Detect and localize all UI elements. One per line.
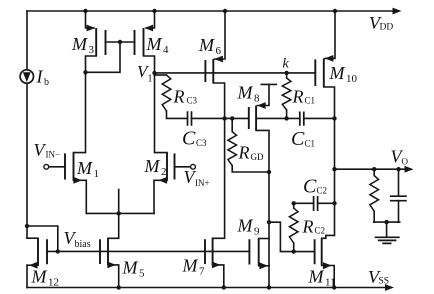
wire M9 drain lead: [259, 238, 269, 240]
svg-text:12: 12: [48, 277, 59, 289]
wire M2 source to tail: [154, 180, 167, 213]
resistor R_C1: [282, 78, 291, 110]
junction dot node V1: [152, 71, 156, 75]
wire RC3 top tap at V1: [155, 74, 167, 76]
wire M3 drain lead down to node A: [86, 56, 97, 72]
junction dot output node: [332, 167, 336, 171]
wire RC2 bottom stub: [293, 243, 295, 252]
svg-text:M: M: [182, 256, 199, 276]
wire M5 source to VSS: [108, 265, 119, 288]
transistor M10 bars: [315, 58, 324, 87]
svg-text:4: 4: [163, 44, 169, 56]
wire RC1 top at node k: [286, 73, 288, 78]
svg-text:O: O: [402, 157, 409, 167]
wire V_IN- terminal to M1 gate: [49, 166, 65, 168]
svg-text:b: b: [44, 77, 49, 88]
wire node V1 to M10 gate (crosses M6, node k): [155, 72, 316, 74]
svg-text:M: M: [144, 156, 161, 176]
wire M1 source to tail: [74, 180, 87, 213]
svg-text:IN+: IN+: [195, 178, 210, 188]
arrow M7 source: [212, 262, 221, 269]
wire RGD top stub: [231, 118, 233, 131]
wire M3 source lead: [86, 11, 95, 28]
svg-text:5: 5: [139, 268, 145, 280]
junction dot Vbias: [56, 249, 60, 253]
junction dot M8 drain: [267, 170, 271, 174]
wire M10 source lead from VDD: [325, 11, 335, 58]
arrow M9 source: [259, 262, 268, 269]
svg-text:C2: C2: [317, 186, 328, 196]
svg-text:C2: C2: [315, 226, 326, 236]
svg-text:C1: C1: [305, 96, 316, 106]
wire M4 source lead: [146, 11, 155, 28]
svg-text:8: 8: [254, 93, 260, 105]
wire M7 source to VSS: [213, 265, 224, 288]
wire M8 source stub with supply bar: [258, 84, 270, 105]
svg-text:3: 3: [89, 44, 95, 56]
wire ground stem: [386, 222, 388, 236]
svg-text:M: M: [146, 34, 163, 54]
wire node A down to M1 drain: [74, 72, 86, 152]
capacitor C_C2 plates: [314, 196, 318, 211]
svg-text:GD: GD: [251, 152, 264, 162]
current source I_b: [20, 70, 33, 83]
wire CC1 right plate to output column: [304, 117, 335, 119]
wire RC3 bottom to CC3: [167, 111, 188, 118]
capacitor C_C3 plates: [188, 111, 192, 126]
arrowhead VDD rail: [393, 8, 402, 15]
wire load bottom bar: [374, 221, 400, 223]
svg-text:IN−: IN−: [46, 150, 61, 160]
transistor M1 bars: [65, 153, 74, 181]
arrow M5 source: [107, 262, 116, 269]
junction dot RC2/CC2 top: [292, 201, 296, 205]
svg-text:1: 1: [94, 168, 100, 180]
capacitor C_C1 plates: [300, 112, 304, 126]
svg-text:k: k: [283, 57, 290, 72]
svg-text:M: M: [31, 267, 48, 287]
ground symbol: [375, 237, 400, 243]
svg-text:C3: C3: [187, 96, 198, 106]
transistor M2 bars: [167, 153, 175, 181]
junction dot second stage node: [222, 116, 226, 120]
transistor M8 bars: [249, 106, 256, 131]
arrow M11 source: [323, 262, 332, 269]
junction dot M3-M4 gate: [118, 40, 122, 44]
transistor M5 bars: [100, 238, 108, 265]
svg-text:C: C: [182, 128, 196, 150]
svg-text:M: M: [237, 216, 254, 236]
transistor M4 bars: [135, 28, 144, 56]
wire M3 diode connection node A to gate wire: [86, 42, 121, 72]
wire RC2 top to CC2 left plate: [294, 203, 314, 208]
transistor M9 bars: [249, 239, 258, 266]
wire M5 drain to tail: [108, 213, 119, 238]
wire load R bottom: [373, 211, 375, 222]
junction dot CC1 right: [332, 116, 336, 120]
junction dot node k: [284, 71, 288, 75]
junction dot CC2 right: [332, 201, 336, 205]
svg-text:R: R: [302, 217, 314, 237]
wire M12 drain lead: [27, 237, 38, 239]
wire M8 body line to RC1/CC1 node: [256, 117, 300, 119]
wire CC2 right plate to output column: [318, 202, 335, 204]
wire M6 source lead from VDD: [215, 11, 226, 59]
svg-text:DD: DD: [380, 23, 394, 33]
wire branch node to M11 gate: [269, 222, 315, 251]
junction dot bias tap: [25, 224, 29, 228]
wire M2 gate to V_IN+ terminal: [175, 166, 191, 168]
transistor M12 bars: [38, 238, 47, 265]
junction dot ground node: [384, 220, 388, 224]
capacitor C_load plates: [390, 196, 407, 201]
svg-text:SS: SS: [379, 277, 390, 287]
junction dot Cload tap: [396, 167, 400, 171]
wire M3-M4 common gate: [106, 41, 135, 43]
wire RC1 bottom: [286, 110, 288, 118]
arrow M10 source: [325, 55, 334, 62]
wire bias tap from left rail: [27, 226, 58, 251]
svg-text:bias: bias: [75, 239, 91, 250]
svg-text:M: M: [76, 158, 93, 178]
wire left supply vertical from VDD to M12: [26, 11, 28, 238]
wire M12 source to VSS corner: [26, 265, 28, 287]
svg-text:M: M: [308, 267, 325, 287]
wire load R top tap: [373, 169, 375, 175]
resistor R_GD: [228, 132, 237, 166]
svg-text:6: 6: [216, 45, 222, 57]
arrow M6 source: [214, 56, 223, 63]
svg-text:M: M: [237, 83, 254, 103]
wire M6 drain down to M7 drain: [213, 83, 225, 238]
arrow M3 source (PMOS, into channel): [87, 25, 96, 32]
junction dot node A (M3 drain): [83, 70, 87, 74]
junction dot tail node: [117, 211, 121, 215]
arrow M12 source: [29, 262, 38, 269]
junction dots on VSS rail: [117, 285, 121, 289]
transistor M3 bars: [96, 28, 105, 56]
arrow M4 source: [145, 25, 154, 32]
wire M10 drain down output column: [322, 87, 335, 238]
wire M11 source to VSS: [322, 266, 335, 288]
arrow M8 source: [257, 102, 266, 109]
svg-text:9: 9: [254, 226, 260, 238]
svg-text:M: M: [71, 34, 88, 54]
svg-text:M: M: [122, 258, 139, 278]
svg-text:10: 10: [346, 73, 358, 85]
junction dot Rload tap: [372, 167, 376, 171]
arrowhead VSS rail: [385, 284, 394, 291]
svg-text:C: C: [291, 128, 305, 150]
wire tail node: [86, 212, 154, 214]
wire RGD bottom link: [232, 166, 269, 172]
wire node V1 down to M2 drain: [155, 73, 168, 153]
arrowhead Vo: [405, 166, 414, 173]
junction dots on VDD rail: [83, 9, 87, 13]
wire output node to Vo: [335, 168, 407, 170]
transistor M7 bars: [205, 238, 213, 265]
wire CC3 to second stage node: [191, 117, 249, 119]
input terminal V_IN- circle: [44, 164, 49, 169]
resistor R_load: [370, 176, 379, 212]
wire M8 drain down: [256, 130, 269, 287]
svg-text:M: M: [329, 63, 346, 83]
svg-text:I: I: [36, 67, 44, 87]
wire M12 source lead: [27, 264, 38, 266]
wire stub above tail node: [118, 190, 120, 214]
wire Vbias bus to M9 gate (crosses M5, M7): [47, 250, 249, 252]
supply bar over M8: [261, 83, 276, 85]
wire M4 drain lead to node V1: [144, 56, 155, 73]
wire load C stem: [398, 169, 400, 222]
junction dot branch to RC2/M11: [267, 220, 271, 224]
svg-text:C: C: [303, 176, 317, 198]
svg-text:R: R: [238, 143, 250, 163]
svg-text:2: 2: [161, 166, 167, 178]
arrow M1 source (NMOS, outward): [73, 177, 82, 184]
svg-text:1: 1: [148, 74, 153, 85]
wire VSS rail: [27, 287, 387, 289]
svg-text:11: 11: [325, 277, 336, 289]
resistor R_C2: [289, 208, 298, 243]
junction dot RC2 bottom: [292, 249, 296, 253]
wire VDD rail: [27, 10, 397, 12]
resistor R_C3: [162, 75, 171, 111]
wire M9 source lead: [259, 265, 269, 267]
junction dot RC1/CC1: [284, 116, 288, 120]
transistor M6 bars: [205, 59, 213, 83]
svg-text:7: 7: [199, 266, 205, 278]
arrow M2 source: [159, 177, 168, 184]
svg-text:C1: C1: [305, 139, 316, 149]
junction dot RGD top: [230, 116, 234, 120]
svg-text:M: M: [198, 35, 215, 55]
svg-text:C3: C3: [196, 138, 207, 148]
transistor M11 bars: [315, 238, 322, 265]
input terminal V_IN+ circle: [191, 164, 196, 169]
svg-text:R: R: [292, 87, 304, 107]
svg-text:R: R: [173, 87, 185, 107]
